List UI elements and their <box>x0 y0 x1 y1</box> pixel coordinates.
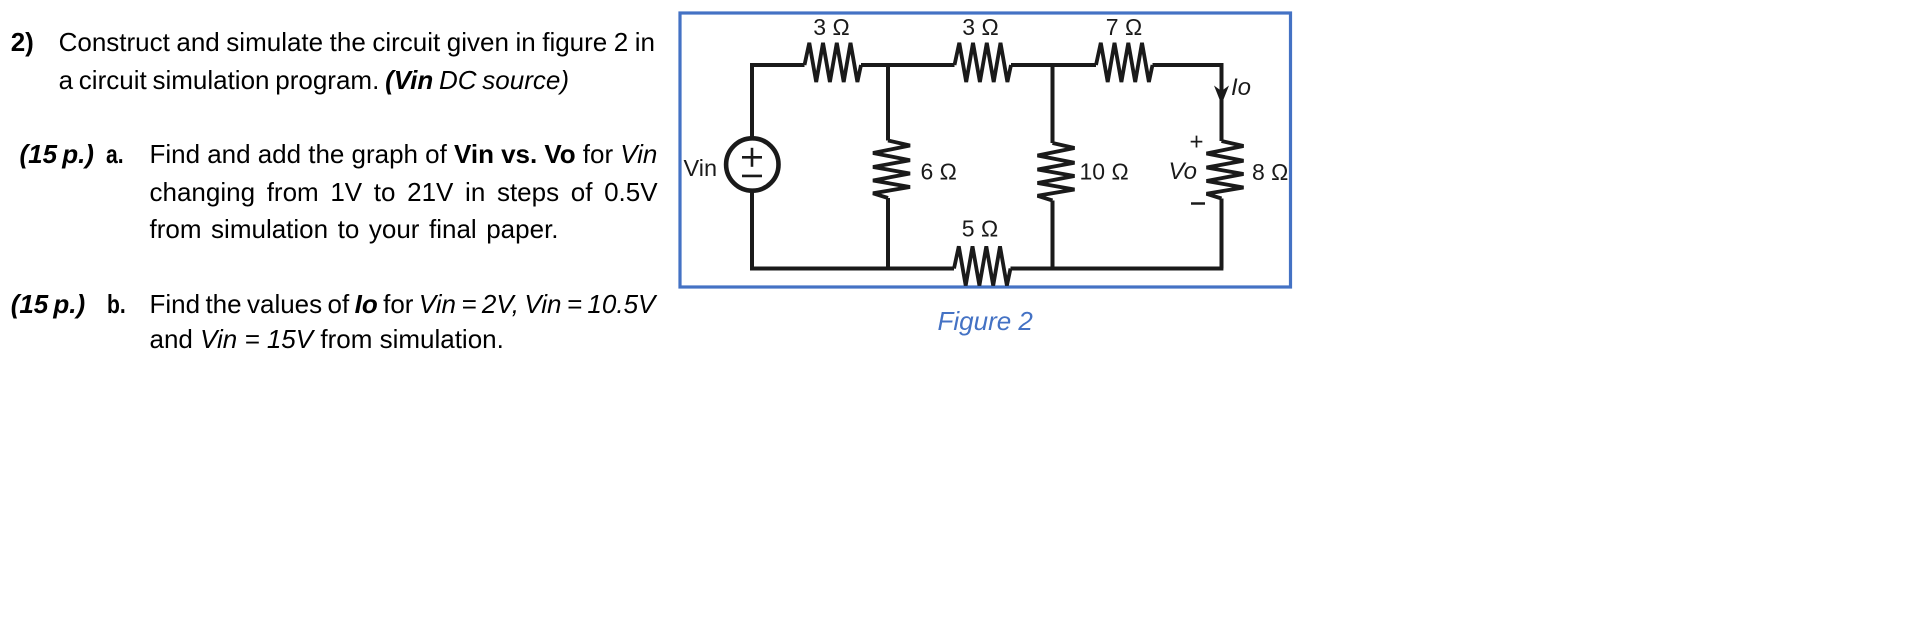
item b line 2 <box>150 324 504 355</box>
svg-text:Vin: Vin <box>684 155 718 181</box>
wire: top between R2 and R3 <box>1011 63 1096 67</box>
resistor R4 6ohm vertical <box>873 141 910 199</box>
item a line 1 <box>150 139 658 170</box>
voltage source plus sign <box>742 148 762 167</box>
svg-text:5 Ω: 5 Ω <box>962 216 998 242</box>
svg-text:6 Ω: 6 Ω <box>921 159 957 185</box>
Vo minus sign <box>1191 202 1205 205</box>
wire: bottom from source to R7 <box>750 267 954 271</box>
wire: top left from source to R1 <box>752 63 805 67</box>
wire: left vertical above source <box>750 63 754 138</box>
svg-text:10 Ω: 10 Ω <box>1080 159 1129 185</box>
svg-text:8 Ω: 8 Ω <box>1252 159 1288 185</box>
resistor R1 3ohm horizontal <box>805 43 862 82</box>
svg-text:7 Ω: 7 Ω <box>1106 14 1142 40</box>
wire: right vertical below 8ohm <box>1220 199 1224 269</box>
svg-text:Figure 2: Figure 2 <box>938 306 1034 336</box>
item b line 1 <box>150 289 656 320</box>
svg-text:+: + <box>1189 129 1203 156</box>
resistor R6 8ohm vertical <box>1207 141 1244 199</box>
item a points <box>20 139 94 170</box>
item b points <box>11 289 85 320</box>
svg-text:3 Ω: 3 Ω <box>962 14 998 40</box>
svg-text:Vo: Vo <box>1169 158 1197 185</box>
wire: node1 vertical below 6ohm <box>886 198 890 269</box>
voltage source minus sign <box>742 175 762 178</box>
problem text line 2 <box>59 65 569 96</box>
wire: top right from R3 to right corner <box>1153 63 1222 67</box>
resistor R5 10ohm vertical <box>1038 143 1075 201</box>
wire: node1 vertical above 6ohm <box>886 65 890 141</box>
wire: bottom from R7 to right corner <box>1011 267 1224 271</box>
item a line 2 <box>150 177 658 208</box>
svg-text:3 Ω: 3 Ω <box>813 14 849 40</box>
resistor R7 5ohm horizontal bottom <box>954 246 1011 285</box>
voltage source Vin circle <box>726 138 778 190</box>
resistor R2 3ohm horizontal <box>955 43 1012 82</box>
item a line 3 <box>150 214 559 245</box>
wire: top between R1 and R2 <box>861 63 955 67</box>
problem text line 1 <box>11 27 34 58</box>
wire: left vertical below source <box>750 191 754 269</box>
wire: right vertical above 8ohm <box>1220 63 1224 141</box>
item a letter <box>106 139 124 170</box>
svg-text:Io: Io <box>1231 74 1251 101</box>
wire: node2 vertical below 10ohm <box>1051 201 1055 269</box>
current arrow Io <box>1214 86 1229 105</box>
wire: node2 vertical above 10ohm <box>1051 65 1055 143</box>
item b letter <box>107 289 126 320</box>
resistor R3 7ohm horizontal <box>1096 43 1153 82</box>
